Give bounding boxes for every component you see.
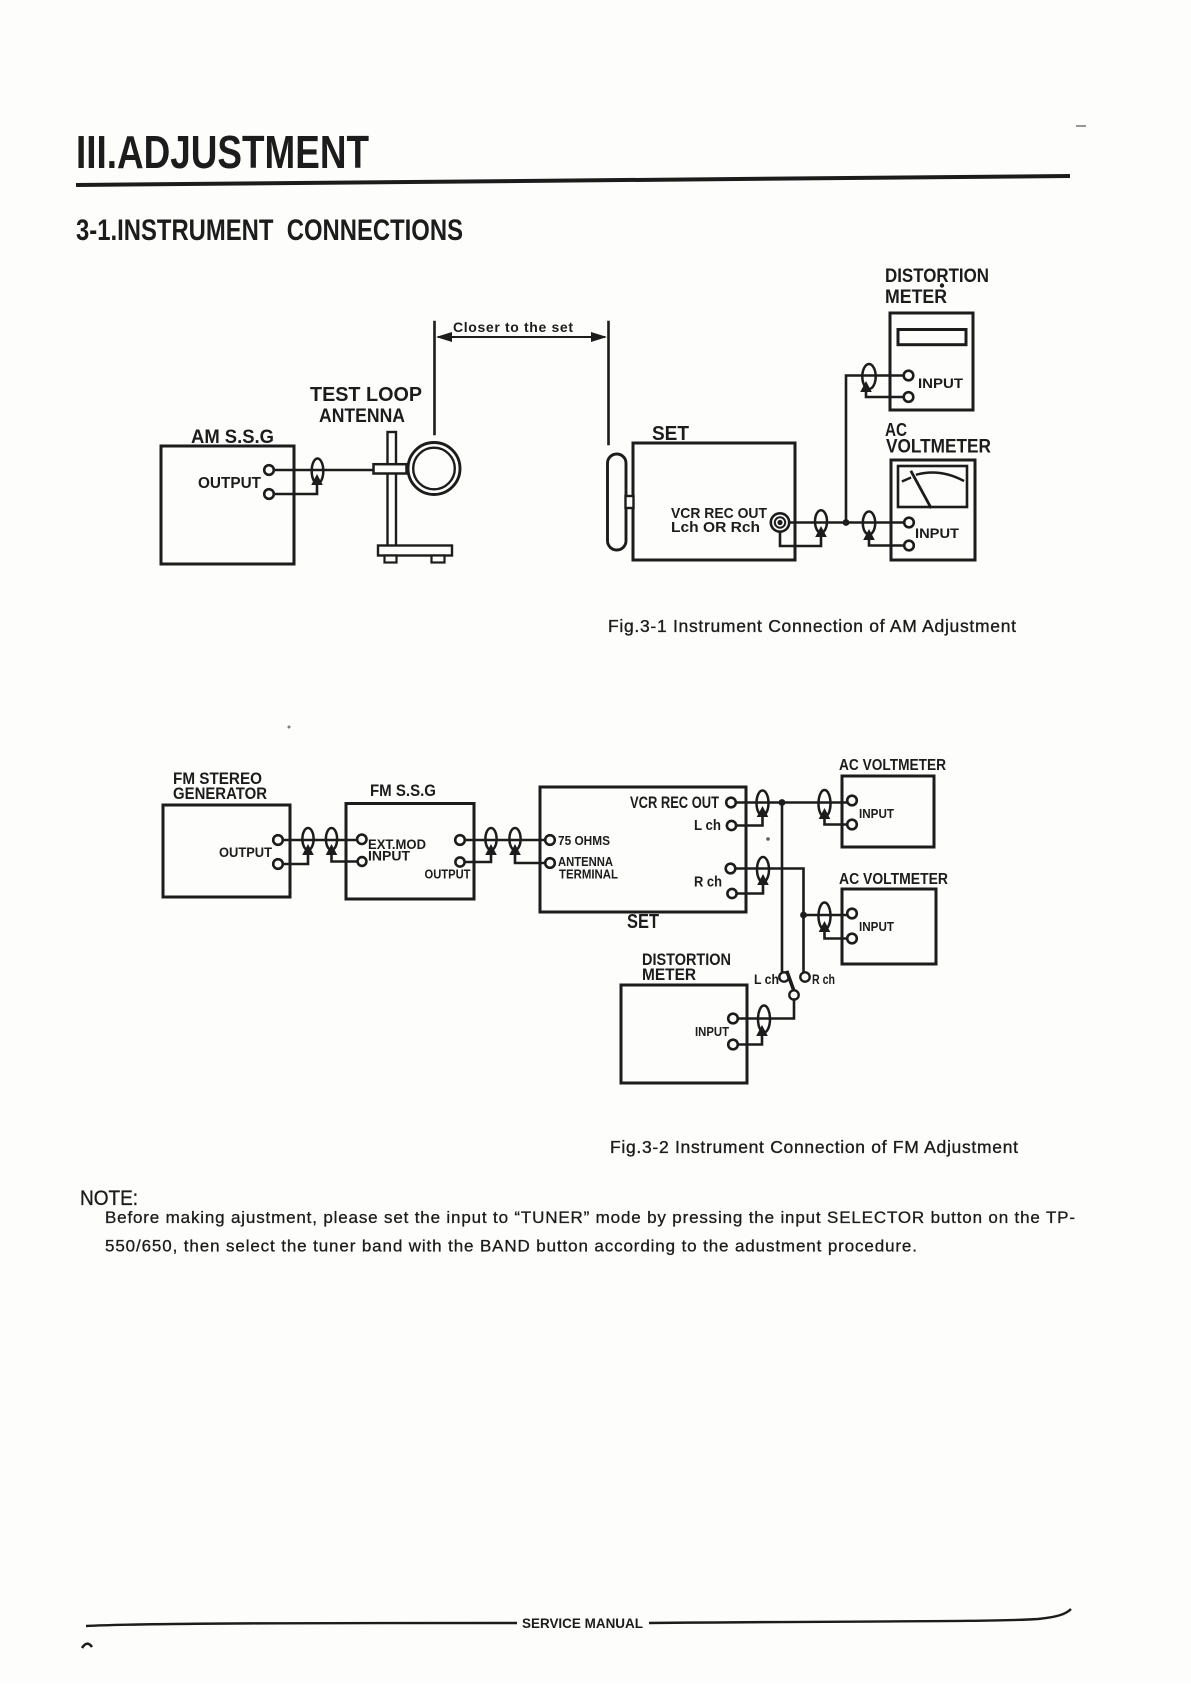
cable loop at ACV1 — [819, 790, 831, 817]
dimension right arrowhead — [591, 332, 607, 342]
svg-text:75 OHMS: 75 OHMS — [558, 833, 610, 848]
wire R channel hot riser — [735, 869, 804, 973]
title underline — [76, 176, 1070, 185]
antenna stand base — [378, 546, 452, 556]
cable loop L channel — [757, 791, 769, 816]
shield arrowhead into DM loop — [860, 381, 872, 392]
shield arrowhead R loop — [757, 874, 769, 885]
loop antenna outer ring — [408, 443, 460, 495]
terminal AM SSG output hot — [264, 465, 274, 475]
ACV meter scale arc — [903, 478, 910, 481]
bar antenna tab — [626, 496, 634, 508]
terminal DM input hot — [904, 371, 914, 381]
page number fragment bottom left — [82, 1644, 92, 1648]
svg-text:FM S.S.G: FM S.S.G — [370, 781, 436, 800]
instrument box FM STEREO GENERATOR — [163, 805, 290, 897]
svg-text:AC VOLTMETER: AC VOLTMETER — [839, 757, 946, 774]
cable loop SET antenna side — [509, 828, 520, 850]
svg-text:TERMINAL: TERMINAL — [559, 868, 618, 882]
dimension left extension line — [433, 322, 436, 434]
instrument box AC VOLTMETER 1 — [842, 776, 934, 847]
wire riser junction to distortion meter — [846, 376, 904, 523]
svg-text:INPUT: INPUT — [859, 806, 894, 821]
terminal FM SSG output gnd — [455, 857, 464, 866]
svg-text:L ch: L ch — [694, 818, 721, 834]
instrument box DISTORTION METER — [890, 313, 973, 410]
svg-text:GENERATOR: GENERATOR — [173, 784, 267, 803]
footer rule left segment — [86, 1623, 517, 1626]
svg-text:Fig.3-1 Instrument Connection: Fig.3-1 Instrument Connection of AM Adju… — [608, 616, 1016, 636]
svg-text:Lch OR Rch: Lch OR Rch — [671, 519, 760, 536]
junction node on AM output line — [843, 519, 850, 526]
terminal SET R ch hot — [726, 864, 736, 874]
svg-text:OUTPUT: OUTPUT — [219, 844, 272, 860]
wire shield return at VCR REC OUT — [780, 531, 821, 546]
wire ACV1 shield return — [825, 814, 849, 825]
cable loop at distortion meter — [862, 364, 875, 389]
terminal DM input gnd (FM) — [728, 1040, 738, 1050]
terminal FM SSG ext mod input — [357, 835, 366, 844]
top-right speck artifact — [1076, 125, 1086, 127]
terminal DM input hot (FM) — [728, 1014, 738, 1024]
terminal AM SSG output gnd — [264, 489, 274, 499]
shield arrowhead into ACV loop — [863, 529, 875, 540]
cable loop at ACV2 — [819, 903, 831, 930]
svg-text:OUTPUT: OUTPUT — [425, 867, 471, 882]
shield arrowhead loop2 — [326, 844, 338, 855]
wire R ch shield return — [736, 880, 763, 894]
wire SET antenna terminal shield return — [515, 851, 546, 863]
cable loop at AC voltmeter — [863, 512, 875, 535]
wire FM gen output hot to FM SSG ext mod input — [282, 839, 357, 842]
svg-text:INPUT: INPUT — [918, 375, 963, 391]
terminal FM SSG ext mod gnd — [358, 857, 367, 866]
svg-text:VOLTMETER: VOLTMETER — [886, 437, 991, 458]
selector contact L — [779, 972, 788, 981]
shield arrowhead loop4 — [509, 844, 521, 855]
wire selector common to distortion meter — [738, 1000, 794, 1019]
svg-text:R ch: R ch — [812, 971, 835, 987]
wire AM SSG output shield return — [273, 481, 317, 494]
junction node L channel — [779, 799, 786, 806]
selector lever — [787, 973, 794, 991]
wire AM SSG output hot — [273, 469, 376, 472]
DM display window — [898, 330, 966, 345]
svg-text:DISTORTION: DISTORTION — [885, 266, 989, 287]
junction node R channel — [800, 912, 807, 919]
terminal ACV input hot — [904, 518, 914, 528]
svg-text:R ch: R ch — [694, 875, 722, 891]
cable loop at distortion meter (FM) — [758, 1006, 770, 1033]
wire DM shield return (FM) — [738, 1031, 762, 1045]
dimension arrow line — [439, 336, 604, 338]
terminal ACV1 input hot — [847, 796, 857, 806]
wire FM gen shield return — [282, 851, 308, 864]
dimension left arrowhead — [436, 332, 452, 342]
svg-text:INPUT: INPUT — [915, 525, 959, 541]
wire FM SSG input shield return — [332, 851, 358, 862]
terminal SET L ch gnd — [727, 821, 736, 830]
terminal ACV2 input hot — [847, 909, 857, 919]
dimension right extension line — [607, 322, 610, 444]
wire VCR REC OUT to AC voltmeter input — [789, 521, 905, 524]
instrument box AM S.S.G — [161, 446, 294, 564]
selector contact R — [800, 972, 809, 981]
bar antenna capsule on SET — [608, 454, 627, 550]
cable loop near SET output — [815, 510, 827, 533]
shield arrowhead ACV1 loop — [819, 808, 831, 819]
wire shield return at AC voltmeter — [869, 536, 905, 546]
instrument box AC VOLTMETER 2 — [842, 889, 936, 964]
instrument box SET (FM) — [540, 787, 746, 912]
svg-text:INPUT: INPUT — [695, 1024, 729, 1039]
svg-text:III.ADJUSTMENT: III.ADJUSTMENT — [76, 126, 369, 178]
shield arrowhead into cable loop — [311, 474, 323, 485]
wire L channel hot to ACV1 — [736, 801, 849, 804]
cable loop (coax) at AM SSG — [312, 459, 324, 484]
terminal SET VCR REC OUT L hot — [726, 798, 736, 808]
wire R junction to ACV2 — [804, 914, 849, 917]
terminal ACV1 input gnd — [847, 820, 857, 830]
shield arrowhead DM loop (FM) — [756, 1025, 768, 1036]
svg-text:L ch: L ch — [754, 971, 779, 987]
svg-text:SERVICE MANUAL: SERVICE MANUAL — [522, 1615, 643, 1631]
terminal SET R ch gnd — [727, 889, 736, 898]
terminal DM input gnd — [904, 392, 914, 402]
selector common pole — [789, 990, 798, 999]
wire L junction riser to selector — [781, 803, 784, 973]
svg-text:ANTENNA: ANTENNA — [319, 406, 405, 427]
terminal FM gen output gnd — [273, 859, 283, 869]
ACV meter scale arc main — [917, 473, 963, 481]
svg-text:Before making ajustment, pleas: Before making ajustment, please set the … — [105, 1208, 1075, 1227]
shield arrowhead L loop — [757, 806, 769, 817]
antenna stand foot left — [385, 556, 397, 563]
wire FM SSG output shield return — [465, 851, 492, 862]
speck in SET box — [766, 837, 770, 841]
shield arrowhead ACV2 loop — [819, 921, 831, 932]
svg-text:AC VOLTMETER: AC VOLTMETER — [839, 871, 948, 888]
cable loop FM gen side — [302, 828, 313, 850]
speck below AM box — [288, 726, 291, 729]
ACV meter face — [898, 466, 967, 507]
instrument box AC VOLTMETER — [891, 460, 975, 560]
terminal ACV2 input gnd — [847, 934, 857, 944]
speck above METER — [940, 283, 944, 287]
instrument box SET — [633, 443, 795, 560]
antenna stand pole — [388, 432, 397, 546]
svg-text:INPUT: INPUT — [368, 848, 410, 864]
connector VCR REC OUT outer — [771, 513, 789, 531]
svg-text:Closer to the set: Closer to the set — [453, 319, 573, 335]
instrument box DISTORTION METER (FM) — [621, 985, 747, 1083]
wire ACV2 shield return — [825, 927, 849, 939]
cable loop FM SSG side — [326, 828, 337, 850]
svg-text:METER: METER — [642, 966, 696, 984]
svg-text:NOTE:: NOTE: — [80, 1187, 138, 1210]
wire L ch shield return — [736, 812, 763, 826]
terminal ACV input gnd — [904, 541, 914, 551]
ACV meter needle — [912, 472, 931, 507]
antenna stand foot right — [432, 556, 445, 563]
footer rule right segment — [649, 1609, 1071, 1623]
svg-text:Fig.3-2 Instrument Connection: Fig.3-2 Instrument Connection of FM Adju… — [610, 1137, 1018, 1157]
terminal FM gen output hot — [273, 835, 283, 845]
svg-text:OUTPUT: OUTPUT — [198, 475, 261, 492]
shield arrowhead into loop — [815, 526, 827, 537]
svg-text:3-1.INSTRUMENT CONNECTIONS: 3-1.INSTRUMENT CONNECTIONS — [76, 214, 463, 247]
cable loop FM SSG output side — [485, 828, 496, 850]
connector VCR REC OUT middle — [775, 517, 785, 527]
cable loop R channel — [757, 857, 769, 882]
terminal FM SSG output hot — [455, 835, 465, 845]
svg-text:SET: SET — [627, 911, 659, 933]
loop antenna inner ring — [413, 448, 455, 490]
svg-text:550/650, then select the tuner: 550/650, then select the tuner band with… — [105, 1237, 917, 1256]
shield arrowhead loop1 — [302, 844, 314, 855]
shield arrowhead loop3 — [485, 844, 497, 855]
svg-text:INPUT: INPUT — [859, 919, 894, 934]
wire shield return at distortion meter — [866, 387, 904, 397]
antenna holder bar — [374, 464, 407, 473]
svg-text:METER: METER — [885, 287, 947, 308]
svg-text:VCR REC OUT: VCR REC OUT — [630, 794, 719, 812]
terminal SET 75 ohms — [545, 835, 555, 845]
connector VCR REC OUT center pin — [777, 520, 782, 525]
instrument box FM S.S.G — [346, 804, 474, 900]
wire FM SSG output hot to SET 75 ohms — [465, 839, 547, 842]
terminal SET antenna — [545, 858, 555, 868]
svg-text:TEST LOOP: TEST LOOP — [310, 384, 422, 406]
